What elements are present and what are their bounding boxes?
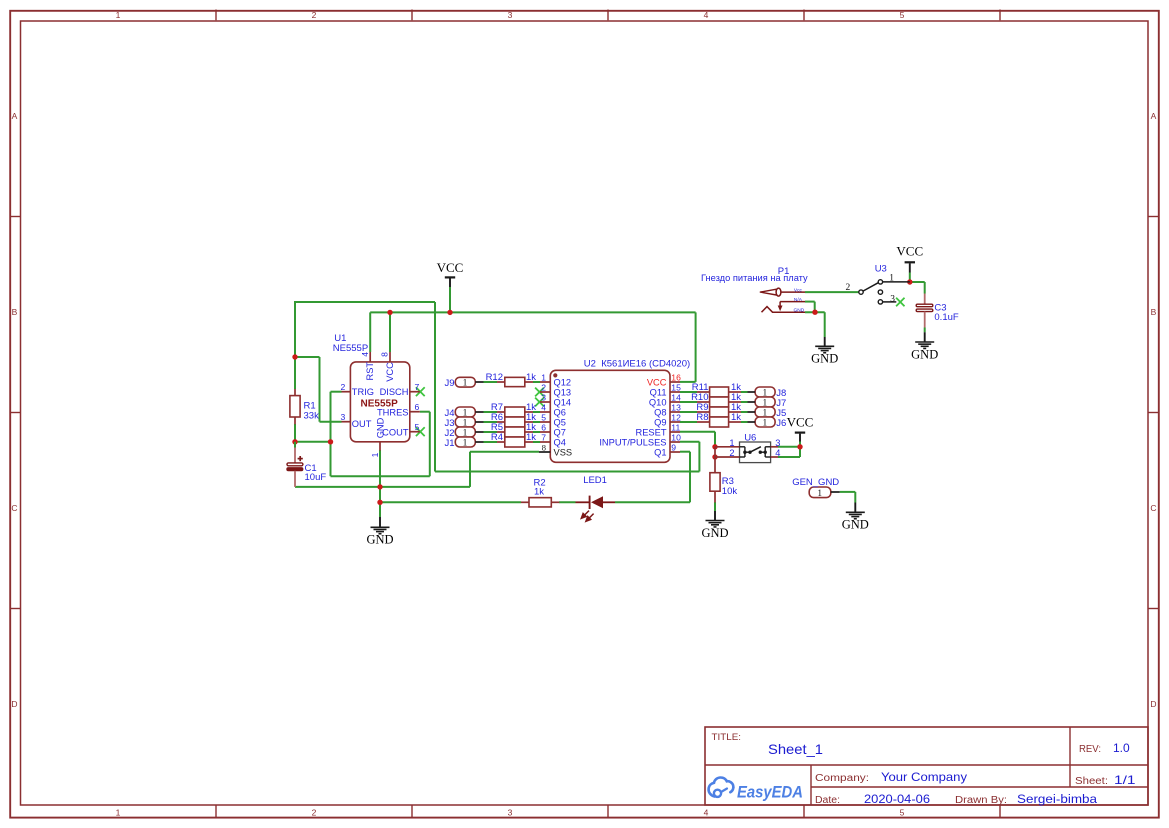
svg-text:5: 5 [900,10,905,20]
wire [824,312,826,337]
junction [292,354,297,359]
wire [434,302,436,472]
no-connect flag U2 pin3 [535,398,544,407]
svg-text:1: 1 [370,452,380,457]
resistor R9 1k [696,402,741,417]
svg-text:3: 3 [341,412,346,422]
title block texts [712,732,1136,806]
wire [778,456,795,458]
junction [377,484,382,489]
wire [330,442,332,476]
svg-text:Sergei-bimba: Sergei-bimba [1017,792,1097,806]
wire [294,424,296,442]
svg-text:RST: RST [365,362,375,381]
svg-text:TRIG: TRIG [352,387,374,397]
EasyEDA logo [709,778,803,802]
connector J3 [444,417,483,429]
svg-text:6: 6 [415,402,420,412]
svg-text:12: 12 [671,412,681,422]
svg-text:GND: GND [366,533,393,547]
svg-text:1: 1 [463,439,468,449]
svg-text:REV:: REV: [1079,744,1101,755]
svg-text:2020-04-06: 2020-04-06 [864,792,930,806]
wire [909,273,911,283]
svg-text:COUT: COUT [382,427,409,437]
capacitor C3 0.1uF [916,294,959,328]
svg-text:Sheet:: Sheet: [1075,776,1108,787]
junction [328,439,333,444]
wire [698,442,700,472]
wire [484,421,498,423]
wire [680,401,697,403]
wire [294,301,296,357]
wire [533,411,540,413]
ground GND (U1 pin1 net) [366,517,393,547]
connector J5 [748,407,787,419]
svg-text:1: 1 [541,372,546,382]
no-connect flag U3 pin3 [896,298,904,306]
svg-text:VCC: VCC [896,244,923,259]
svg-text:2: 2 [729,448,734,458]
svg-text:J9: J9 [444,378,454,389]
ground GND (GEN_GND) [842,503,869,532]
power flag VCC (near U6) [787,415,814,442]
connector J7 [748,397,787,409]
svg-text:8: 8 [542,442,547,452]
wire [778,446,800,448]
U2 pin numbers left 1-8 [541,372,546,452]
svg-text:Q9: Q9 [654,417,666,427]
resistor R5 1k [491,422,536,437]
wire [741,391,748,393]
svg-text:5: 5 [541,412,546,422]
svg-text:Drawn By:: Drawn By: [955,795,1007,806]
svg-text:Q8: Q8 [654,407,666,417]
svg-text:N/A: N/A [794,297,803,303]
U2 pin names left [554,377,573,457]
wire [449,287,451,312]
svg-text:2: 2 [312,10,317,20]
svg-text:U3: U3 [875,263,887,274]
U1 pin numbers [341,352,420,458]
svg-text:VCC: VCC [647,377,667,387]
wire [680,431,715,433]
svg-text:1k: 1k [534,487,544,498]
wire [615,501,690,503]
junction [387,310,392,315]
svg-text:B: B [12,307,18,317]
wire [741,421,748,423]
resistor R6 1k [491,412,536,427]
wire [805,301,815,303]
svg-text:B: B [1151,307,1157,317]
svg-text:GEN_GND: GEN_GND [792,477,839,488]
wire [294,357,296,389]
svg-text:GND: GND [701,526,728,540]
svg-text:1k: 1k [731,412,741,423]
junction [377,500,382,505]
svg-text:7: 7 [415,382,420,392]
svg-text:J1: J1 [444,438,454,449]
connector P1 power jack [701,266,808,314]
svg-text:Q12: Q12 [554,377,572,387]
svg-text:Your Company: Your Company [881,770,968,784]
wire [924,328,926,333]
wire [331,475,430,477]
wire [330,392,332,442]
svg-text:0.1uF: 0.1uF [934,312,958,323]
wire [319,357,321,422]
switch U3 [846,263,910,304]
svg-text:TITLE:: TITLE: [712,732,742,742]
resistor R4 1k [491,432,536,447]
svg-text:Q1: Q1 [654,447,666,457]
wire [369,312,371,352]
svg-text:U2 К561ИЕ16 (CD4020): U2 К561ИЕ16 (CD4020) [584,358,690,369]
connector J1 [444,437,483,449]
svg-text:1k: 1k [526,432,536,443]
junction [812,310,817,315]
svg-text:2: 2 [541,382,546,392]
wire [805,311,825,313]
svg-text:VCC: VCC [787,415,814,430]
svg-text:1: 1 [889,273,894,283]
svg-text:Q5: Q5 [554,417,566,427]
svg-text:9: 9 [671,442,676,452]
wire [680,391,697,393]
svg-text:4: 4 [704,10,709,20]
svg-text:NE555P: NE555P [361,399,399,410]
wire [484,441,498,443]
no-connect flag U1 pin5 [416,427,425,436]
wire [680,381,696,383]
wire [380,501,521,503]
svg-text:15: 15 [671,382,681,392]
svg-text:3: 3 [890,294,895,304]
svg-text:1: 1 [762,419,767,429]
svg-text:1: 1 [817,489,822,499]
title block frame [705,727,1148,805]
ruler row letters right [1150,111,1156,709]
junction [712,444,717,449]
capacitor C1 10uF polarized [287,442,327,487]
net port GEN_GND [792,477,840,499]
svg-text:EasyEDA: EasyEDA [737,784,803,802]
wire [689,452,691,503]
svg-text:1: 1 [729,438,734,448]
svg-text:1/1: 1/1 [1114,773,1136,787]
ruler column numbers bottom [116,808,905,818]
svg-text:13: 13 [671,402,681,412]
wire [533,441,540,443]
svg-text:3: 3 [775,438,780,448]
ground GND (P1 sleeve) [811,337,838,366]
wire [814,302,816,313]
resistor R1 33k [290,389,319,424]
svg-text:GND: GND [794,307,805,313]
svg-text:3: 3 [508,10,513,20]
svg-text:14: 14 [671,392,681,402]
wire [295,486,470,488]
svg-text:GND: GND [811,352,838,366]
wire [714,432,716,447]
wire [714,502,716,511]
wire [680,451,690,453]
svg-text:A: A [12,111,18,121]
svg-text:2: 2 [341,382,346,392]
svg-text:VSS: VSS [554,447,573,457]
svg-text:16: 16 [671,372,681,382]
svg-text:Гнездо питания на плату: Гнездо питания на плату [701,273,808,283]
junction [712,454,717,459]
junction [292,439,297,444]
svg-text:R8: R8 [696,412,708,423]
svg-text:Date:: Date: [815,795,840,806]
svg-text:Vcc: Vcc [794,287,803,293]
wire [484,431,498,433]
wire [805,291,859,293]
resistor R3 10k [710,457,737,503]
svg-text:NE555P: NE555P [333,343,368,354]
svg-text:3: 3 [541,392,546,402]
svg-text:D: D [1150,699,1156,709]
svg-text:U6: U6 [744,432,756,443]
wire [799,442,801,447]
wire [295,441,331,443]
wire [840,491,856,493]
wire [854,492,856,503]
svg-text:11: 11 [671,422,680,432]
op-amp/timer U1 NE555P body [342,352,420,451]
wire [484,411,498,413]
svg-text:Q10: Q10 [649,397,667,407]
junction [797,444,802,449]
svg-text:Q6: Q6 [554,407,566,417]
svg-text:1.0: 1.0 [1113,741,1130,755]
svg-text:1k: 1k [526,372,536,383]
svg-text:2: 2 [312,808,317,818]
connector J2 [444,427,483,439]
svg-text:5: 5 [415,422,420,432]
resistor R11 1k [692,382,742,397]
wire [533,421,540,423]
U1 pin names [352,362,409,439]
svg-text:Q11: Q11 [650,387,667,397]
wire [533,431,540,433]
no-connect flag U2 pin2 [535,388,544,397]
svg-text:GND: GND [911,347,938,361]
wire [741,411,748,413]
svg-text:Company:: Company: [815,773,869,784]
LED LED1 [576,475,616,522]
wire [533,381,540,383]
connector J4 [444,407,483,419]
connector J8 [748,387,787,399]
svg-text:4: 4 [775,448,780,458]
wire [429,412,431,477]
connector J9 [444,377,483,389]
resistor R8 1k [696,412,741,427]
wire [695,312,697,382]
ground GND (below C3) [911,332,938,361]
wire [910,281,925,283]
ground GND (below R3) [701,511,728,540]
svg-text:R4: R4 [491,432,503,443]
wire [295,356,320,358]
power flag VCC (near U3) [896,244,923,273]
wire [470,451,539,453]
wire [484,381,498,383]
ruler row letters left [11,111,17,709]
wire [331,391,342,393]
svg-text:7: 7 [541,432,546,442]
svg-text:Q7: Q7 [554,427,566,437]
svg-text:10k: 10k [722,486,738,497]
svg-text:6: 6 [541,422,546,432]
wire [379,450,381,517]
svg-text:Q13: Q13 [554,387,572,397]
wire [370,311,695,313]
wire [389,312,391,352]
no-connect flag U1 pin7 [416,387,425,396]
U2 pin names right [599,377,666,457]
svg-text:GND: GND [376,417,386,438]
svg-text:OUT: OUT [352,419,372,429]
svg-text:4: 4 [704,808,709,818]
resistor R7 1k [491,402,536,417]
svg-text:J6: J6 [776,418,786,429]
svg-text:8: 8 [380,352,390,357]
svg-text:C: C [1150,503,1156,513]
svg-text:D: D [11,699,17,709]
svg-text:R12: R12 [486,372,503,383]
svg-text:VCC: VCC [385,362,395,382]
U2 pin numbers right 16-9 [671,372,681,452]
svg-text:Sheet_1: Sheet_1 [768,742,823,757]
wire [680,411,697,413]
wire [799,447,801,457]
wire [469,452,471,487]
IC U2 K561IE16 (CD4020) body [539,370,680,462]
junction [907,279,912,284]
wire [320,421,342,423]
connector J6 [748,417,787,429]
svg-text:VCC: VCC [437,260,464,275]
svg-text:1: 1 [116,808,121,818]
svg-text:C: C [11,503,17,513]
wire [924,282,926,294]
switch U6 [715,432,780,462]
svg-text:10: 10 [671,432,681,442]
resistor R12 1k [486,372,537,387]
wire [680,441,699,443]
power flag VCC (near U1) [437,260,464,287]
svg-text:GND: GND [842,518,869,532]
svg-text:Q4: Q4 [554,437,566,447]
svg-text:4: 4 [541,402,546,412]
junction [447,310,452,315]
svg-text:A: A [1151,111,1157,121]
resistor R10 1k [691,392,741,407]
svg-text:10uF: 10uF [305,472,327,483]
wire [435,471,699,473]
svg-text:1: 1 [116,10,121,20]
wire [680,421,697,423]
svg-text:5: 5 [900,808,905,818]
svg-text:RESET: RESET [636,427,667,437]
svg-text:1: 1 [463,379,468,389]
svg-text:LED1: LED1 [583,475,607,486]
wire [559,501,576,503]
wire [741,401,748,403]
svg-text:Q14: Q14 [554,397,572,407]
svg-text:2: 2 [846,283,851,293]
ruler column numbers top [116,10,905,20]
svg-text:DISCH: DISCH [380,387,409,397]
wire [295,301,435,303]
svg-text:33k: 33k [304,410,320,421]
svg-text:3: 3 [508,808,513,818]
wire [420,411,430,413]
svg-text:INPUT/PULSES: INPUT/PULSES [599,437,666,447]
resistor R2 1k [521,477,559,507]
wire [795,456,800,458]
